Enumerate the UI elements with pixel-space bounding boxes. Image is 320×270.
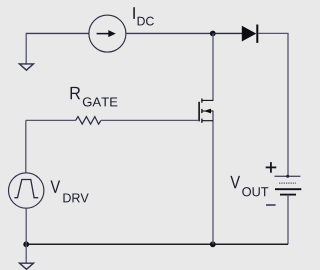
label V_OUT: [230, 176, 268, 197]
diode D1: [242, 25, 257, 43]
node (source junction on bottom rail): [210, 241, 216, 247]
source V_DRV (pulse source): [9, 173, 44, 208]
label + (battery positive): [266, 162, 277, 173]
wire (V_DRV bottom to bottom rail node): [25, 208, 27, 244]
wire (battery bottom to bottom rail): [287, 195, 289, 245]
wire (source vertical: MOSFET source to bottom rail): [212, 121, 214, 245]
resistor R_GATE: [76, 117, 101, 125]
current source I_DC: [89, 15, 126, 52]
wire (top-left vertical down to ground): [25, 33, 27, 63]
ground (bottom left): [20, 263, 34, 269]
wire (bottom rail): [26, 243, 288, 245]
wire (diode cathode to right rail corner): [258, 33, 288, 176]
wire (drain vertical: node to MOSFET drain): [212, 33, 214, 100]
label I_DC: [133, 7, 154, 25]
node (V_DRV junction on bottom rail): [23, 241, 29, 247]
transistor M1 (N-channel MOSFET): [199, 99, 213, 123]
wire (current source to drain node): [126, 32, 213, 34]
label R_GATE: [71, 87, 118, 107]
battery V_OUT: [275, 175, 302, 195]
wire (resistor to MOSFET gate): [101, 119, 199, 121]
label - (battery negative): [266, 204, 276, 206]
node (drain junction): [210, 31, 216, 37]
label V_DRV: [51, 181, 89, 203]
ground (top left): [19, 64, 33, 70]
wire (gate branch: corner at left, horizontal to resistor): [26, 120, 76, 172]
wire (drain node to diode anode): [213, 32, 242, 34]
wire (bottom node down to ground): [25, 245, 27, 263]
wire (top-left horizontal from ground branch to current source): [26, 32, 89, 34]
